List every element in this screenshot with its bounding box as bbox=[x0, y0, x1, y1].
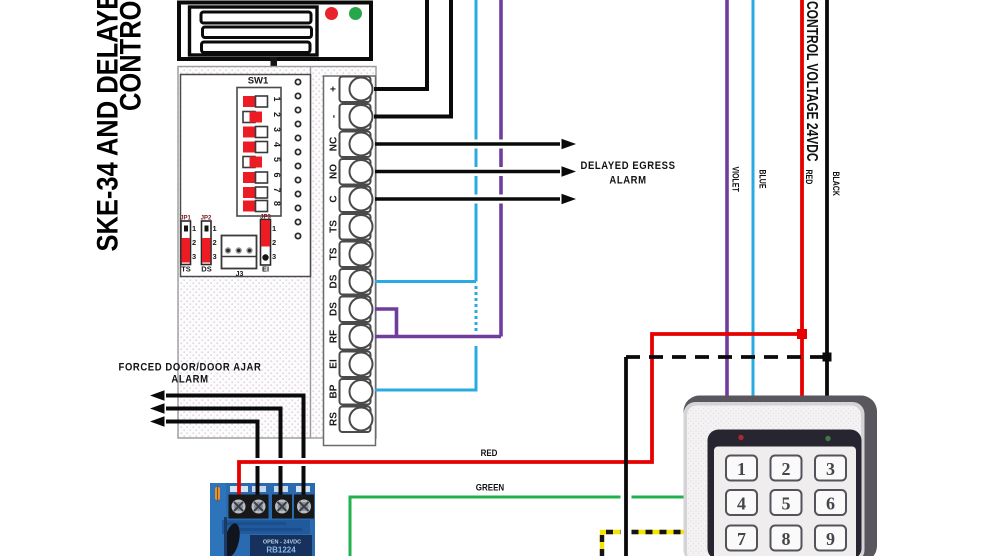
svg-text:3: 3 bbox=[272, 252, 276, 261]
wire violet keypad vertical bbox=[725, 0, 729, 399]
via holes column bbox=[295, 79, 300, 238]
svg-text:2: 2 bbox=[192, 238, 196, 247]
svg-text:ALARM: ALARM bbox=[609, 175, 646, 187]
svg-text:GREEN: GREEN bbox=[476, 482, 504, 493]
arrow wire forced door 3 from relay terminal 2 bbox=[150, 416, 258, 494]
svg-text:1: 1 bbox=[272, 97, 282, 102]
wire black dashed to keypad bbox=[626, 355, 823, 359]
relay board resistor bbox=[215, 485, 220, 502]
svg-text:+: + bbox=[329, 86, 340, 92]
svg-text:RED: RED bbox=[481, 447, 498, 458]
arrow wire C to delayed egress alarm bbox=[375, 194, 576, 204]
maglock M1 body bbox=[179, 3, 371, 60]
label RED wire bbox=[481, 447, 498, 458]
SW1 switch 8 (on-left) bbox=[243, 201, 282, 212]
terminal strip TB1 bbox=[324, 76, 376, 446]
svg-text:J3: J3 bbox=[236, 271, 244, 278]
keypad case bbox=[684, 396, 878, 556]
arrow wire NO to delayed egress alarm bbox=[375, 166, 576, 176]
svg-text:BLACK: BLACK bbox=[831, 172, 842, 196]
terminal RF bbox=[329, 324, 373, 350]
title SKE-34 AND DELAYED line bbox=[91, 0, 124, 252]
wire black control voltage vertical bbox=[825, 0, 829, 399]
svg-text:2: 2 bbox=[213, 238, 217, 247]
svg-text:2: 2 bbox=[272, 238, 276, 247]
terminal C bbox=[329, 187, 373, 213]
arrow wire forced door 2 from relay terminal 3 bbox=[150, 403, 281, 494]
terminal EI bbox=[329, 352, 373, 378]
dip switch SW1 label bbox=[248, 76, 269, 87]
wire black from terminal + up bbox=[374, 0, 427, 89]
keypad button 3 bbox=[815, 456, 846, 481]
terminal BP bbox=[329, 379, 373, 405]
SW1 switch 4 (on-left) bbox=[243, 142, 282, 153]
SW1 switch 7 (on-left) bbox=[243, 187, 282, 198]
label control voltage 24vdc bbox=[804, 1, 822, 162]
svg-text:1: 1 bbox=[192, 224, 196, 233]
jumper JP2 bbox=[201, 216, 217, 274]
svg-text:7: 7 bbox=[272, 188, 282, 193]
wire stubs into relay terminals bbox=[239, 483, 304, 503]
relay terminal block 1 bbox=[229, 495, 249, 519]
label BLUE bbox=[757, 170, 768, 189]
svg-text:1: 1 bbox=[272, 224, 276, 233]
label RED vertical bbox=[804, 170, 815, 185]
wire red control voltage vertical bbox=[800, 0, 804, 399]
svg-text:TS: TS bbox=[329, 247, 340, 260]
svg-text:RF: RF bbox=[329, 330, 340, 343]
svg-text:2: 2 bbox=[782, 459, 791, 479]
wire blue keypad vertical bbox=[752, 0, 755, 399]
svg-text:RB1224: RB1224 bbox=[266, 546, 296, 555]
label forced door alarm bbox=[119, 362, 262, 386]
maglock red LED bbox=[325, 7, 338, 20]
jumper JP3 bbox=[260, 215, 276, 274]
svg-text:NO: NO bbox=[329, 164, 340, 179]
terminal TS1 bbox=[329, 214, 373, 240]
svg-text:3: 3 bbox=[213, 252, 217, 261]
wire blue from top to terminal DS1 bbox=[375, 0, 476, 282]
relay board diode bbox=[222, 517, 243, 556]
svg-text:ALARM: ALARM bbox=[171, 374, 208, 386]
terminal TS2 bbox=[329, 242, 373, 268]
junction black bbox=[823, 353, 832, 362]
label GREEN wire bbox=[476, 482, 504, 493]
jumper JP1 bbox=[180, 216, 196, 274]
keypad button 7 bbox=[726, 526, 757, 551]
svg-text:3: 3 bbox=[826, 459, 835, 479]
wire green to keypad bbox=[350, 497, 687, 556]
svg-text:6: 6 bbox=[826, 494, 835, 514]
svg-text:2: 2 bbox=[272, 112, 282, 117]
wire violet from top to terminal RF bbox=[375, 0, 501, 337]
svg-text:DS: DS bbox=[329, 274, 340, 288]
relay board RB1224 bbox=[210, 483, 315, 556]
SW1 switch 1 (on-left) bbox=[243, 96, 282, 107]
keypad button 5 bbox=[771, 490, 802, 515]
svg-text:8: 8 bbox=[272, 201, 282, 206]
svg-text:3: 3 bbox=[272, 127, 282, 132]
label delayed egress alarm bbox=[580, 160, 675, 186]
svg-text:4: 4 bbox=[272, 142, 282, 147]
svg-text:RS: RS bbox=[329, 412, 340, 426]
svg-text:1: 1 bbox=[737, 459, 746, 479]
svg-text:NC: NC bbox=[329, 137, 340, 151]
svg-text:BLUE: BLUE bbox=[757, 170, 768, 189]
svg-text:DS: DS bbox=[201, 265, 211, 274]
wire violet link DS2 to RF bbox=[375, 309, 397, 337]
svg-text:TS: TS bbox=[329, 220, 340, 233]
terminal + bbox=[329, 77, 373, 103]
component area box bbox=[181, 75, 311, 277]
keypad bezel bbox=[708, 430, 862, 556]
title CONTROLLER line bbox=[114, 0, 147, 111]
svg-text:C: C bbox=[329, 195, 340, 202]
keypad button 9 bbox=[815, 526, 846, 551]
svg-text:7: 7 bbox=[737, 529, 746, 549]
relay terminal block 4 bbox=[294, 495, 314, 519]
label VIOLET bbox=[730, 167, 741, 192]
svg-text:VIOLET: VIOLET bbox=[730, 167, 741, 192]
SW1 switch 5 (on-right) bbox=[243, 157, 282, 168]
svg-text:-: - bbox=[329, 115, 340, 118]
relay board label plate bbox=[250, 535, 312, 556]
PCB board bbox=[178, 67, 376, 439]
svg-text:CONTROLLER: CONTROLLER bbox=[114, 0, 147, 111]
terminal NC bbox=[329, 132, 373, 158]
svg-text:BP: BP bbox=[329, 384, 340, 398]
wire black from terminal - up bbox=[374, 0, 451, 117]
svg-text:5: 5 bbox=[272, 157, 282, 162]
svg-text:3: 3 bbox=[192, 252, 196, 261]
keypad button 6 bbox=[815, 490, 846, 515]
svg-text:EI: EI bbox=[329, 359, 340, 369]
svg-text:DELAYED EGRESS: DELAYED EGRESS bbox=[580, 160, 675, 172]
keypad button 2 bbox=[771, 456, 802, 481]
svg-text:1: 1 bbox=[213, 224, 217, 233]
keypad green LED bbox=[825, 436, 830, 441]
svg-text:FORCED DOOR/DOOR AJAR: FORCED DOOR/DOOR AJAR bbox=[119, 362, 262, 374]
svg-text:SW1: SW1 bbox=[248, 76, 269, 87]
wire black vertical to bottom bbox=[624, 357, 628, 556]
wire blue dashed hidden segment bbox=[475, 286, 478, 331]
svg-text:5: 5 bbox=[782, 494, 791, 514]
relay terminal block 3 bbox=[272, 495, 292, 519]
terminal DS2 bbox=[329, 297, 373, 323]
terminal - bbox=[329, 104, 373, 130]
wire blue to terminal BP bbox=[375, 346, 476, 390]
svg-text:EI: EI bbox=[262, 265, 269, 274]
svg-text:8: 8 bbox=[782, 529, 791, 549]
wire red branch to relay board bbox=[239, 334, 802, 503]
junction red bbox=[797, 329, 807, 339]
SW1 switch 3 (on-left) bbox=[243, 127, 282, 138]
connector J3 bbox=[222, 236, 257, 279]
terminal RS bbox=[329, 407, 373, 433]
arrow wire forced door 1 from relay terminal 4 bbox=[150, 390, 304, 494]
svg-text:CONTROL VOLTAGE 24VDC: CONTROL VOLTAGE 24VDC bbox=[804, 1, 822, 162]
SW1 switch 6 (on-left) bbox=[243, 172, 282, 183]
svg-text:6: 6 bbox=[272, 173, 282, 178]
svg-text:4: 4 bbox=[737, 494, 746, 514]
svg-text:TS: TS bbox=[181, 265, 191, 274]
maglock mounting stub bbox=[271, 57, 278, 68]
wire yellow dashed to keypad bbox=[602, 532, 687, 556]
keypad button 4 bbox=[726, 490, 757, 515]
keypad button 8 bbox=[771, 526, 802, 551]
dip switch SW1 bbox=[237, 88, 282, 217]
relay terminal block 2 bbox=[249, 495, 269, 519]
terminal DS1 bbox=[329, 269, 373, 295]
keypad button 1 bbox=[726, 456, 757, 481]
maglock green LED bbox=[349, 7, 362, 20]
svg-text:DS: DS bbox=[329, 302, 340, 316]
label BLACK bbox=[831, 172, 842, 196]
svg-text:9: 9 bbox=[826, 529, 835, 549]
terminal NO bbox=[329, 159, 373, 185]
arrow wire NC to delayed egress alarm bbox=[375, 139, 576, 149]
SW1 switch 2 (on-right) bbox=[243, 112, 282, 123]
keypad red LED bbox=[738, 435, 743, 440]
svg-text:RED: RED bbox=[804, 170, 815, 185]
